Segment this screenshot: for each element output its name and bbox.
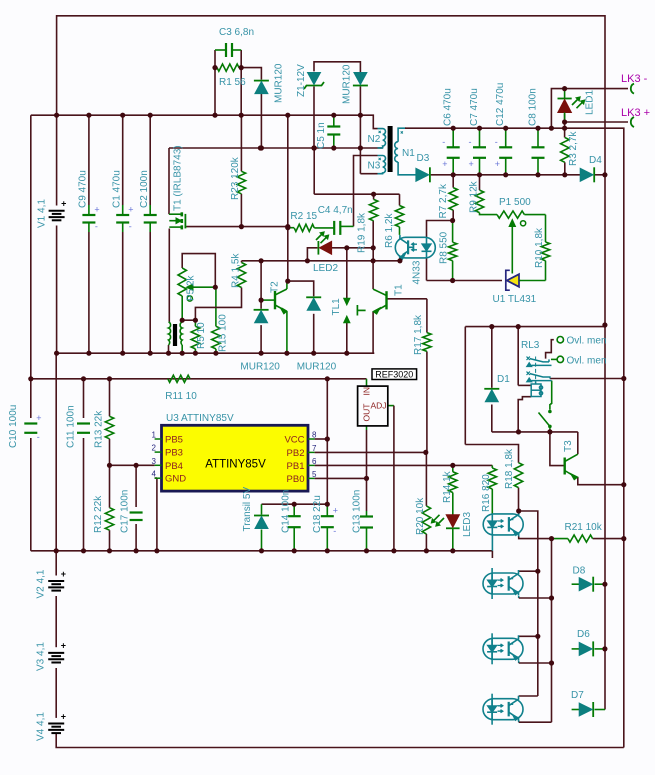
wire R8 leads — [452, 221, 454, 243]
svg-text:C14 100n: C14 100n — [281, 490, 292, 533]
wire opto1 LED cathode to GND rail — [491, 535, 493, 551]
wire D1 column — [491, 327, 493, 388]
wire PB1 pin6 rail — [315, 464, 493, 466]
resistor R1 — [217, 64, 239, 71]
svg-text:V1 4,1: V1 4,1 — [37, 199, 48, 228]
wire C11 column — [83, 379, 85, 418]
battery V3 — [48, 652, 64, 654]
wire R20 column — [425, 452, 427, 506]
wire 4N33 emitter rail — [399, 258, 401, 261]
wire relay left vertical x=465.3 — [464, 327, 466, 445]
wire transil bottom lead — [261, 530, 263, 551]
svg-text:Ovl. men: Ovl. men — [567, 336, 607, 347]
wire C14 leads — [293, 504, 295, 516]
svg-text:LK3 +: LK3 + — [621, 107, 650, 119]
wire MUR120 D5 column — [260, 261, 262, 309]
wire R23 column — [240, 115, 242, 171]
transformer TL1 winding B — [180, 322, 182, 345]
optocoupler OK4 — [483, 694, 523, 725]
wire R13 column — [109, 379, 111, 417]
svg-text:+: + — [36, 413, 41, 423]
resistor R8 — [448, 242, 456, 261]
wire T1 base to R17 — [388, 298, 427, 300]
wire R16 top lead — [491, 465, 493, 468]
diode D6 — [592, 641, 594, 656]
wire relay throw to switch — [551, 381, 553, 404]
wire T2 collector column — [287, 228, 289, 281]
svg-text:R2 15: R2 15 — [290, 211, 317, 222]
wire P1 right lead — [524, 214, 545, 216]
svg-text:C7 470u: C7 470u — [469, 88, 480, 126]
wire D8 leads — [572, 583, 581, 585]
wire relay coil return to rail — [518, 397, 531, 432]
resistor R19 — [369, 199, 377, 220]
relay terminal circles — [557, 337, 563, 343]
zener Z1 — [304, 82, 324, 89]
svg-text:V3 4,1: V3 4,1 — [35, 642, 46, 671]
wire right outer vertical — [604, 89, 606, 325]
wire R19 top — [373, 194, 375, 199]
diode D2a MUR120 — [254, 80, 269, 82]
svg-text:7: 7 — [312, 444, 317, 453]
wire C17 column — [135, 465, 137, 507]
svg-text:MUR120: MUR120 — [274, 63, 285, 103]
wire LED2 cathode link — [307, 248, 317, 261]
svg-text:R15 100: R15 100 — [217, 314, 228, 352]
wire T2 emitter down — [286, 311, 288, 353]
svg-text:-: - — [95, 222, 98, 232]
wire T1 emitter — [372, 312, 374, 354]
wire MUR120 D2b column to N3 — [359, 115, 361, 174]
mosfet T1 IRLB8743 — [181, 212, 184, 216]
svg-text:C12 470u: C12 470u — [495, 83, 506, 126]
diode D7 — [592, 702, 594, 717]
led LED2 — [317, 241, 319, 255]
svg-text:Z1-12V: Z1-12V — [296, 64, 307, 97]
transformer TL1 primary winding A — [169, 322, 171, 345]
svg-text:-: - — [495, 137, 498, 147]
wire 4N33 cathode leg — [426, 258, 428, 281]
wire gate rail y=194.2 — [314, 193, 399, 195]
wire relay coil left terminal — [518, 384, 531, 386]
svg-text:PB2: PB2 — [287, 448, 305, 459]
wire C7 leads — [479, 128, 481, 147]
IC U3 ATTINY85V — [162, 425, 309, 491]
wire D1 bottom rail y=431.9 — [492, 431, 578, 433]
capacitor C6 — [447, 146, 460, 148]
svg-text:4N33: 4N33 — [412, 260, 423, 284]
svg-text:+: + — [61, 199, 66, 209]
wire R16 bottom to opto1 — [491, 489, 493, 515]
wire Z1/MUR120 clamp top link — [314, 62, 360, 72]
capacitor C9 — [88, 205, 90, 215]
svg-text:R20 10k: R20 10k — [415, 497, 426, 535]
wire N3 top feed — [354, 156, 378, 227]
wire R19 bottom — [372, 221, 374, 261]
wire opto4 emitter link — [518, 720, 520, 722]
svg-text:MUR120: MUR120 — [240, 362, 280, 373]
wire opto1 collector branch — [519, 511, 538, 571]
svg-text:N1: N1 — [402, 148, 415, 159]
svg-text:LK3 -: LK3 - — [621, 73, 648, 85]
wire VCC riser x=327.3 — [326, 379, 328, 439]
switch S1 — [548, 410, 552, 414]
svg-text:R17 1,8k: R17 1,8k — [413, 314, 424, 355]
svg-text:2: 2 — [152, 444, 157, 453]
resistor R16 — [488, 468, 496, 489]
wire R1/C3 left column — [214, 68, 216, 116]
relay RL3 coil — [531, 382, 542, 397]
wire T1 collector — [372, 261, 374, 289]
transistor T2 — [274, 291, 276, 309]
svg-text:C8 100n: C8 100n — [527, 88, 538, 126]
wire D6 leads — [572, 648, 581, 650]
transformer N1 winding — [395, 142, 398, 162]
wire MUR120 D7 bottom — [313, 314, 315, 353]
capacitor C3 — [215, 49, 226, 51]
svg-text:5: 5 — [312, 470, 317, 479]
svg-text:PB1: PB1 — [287, 461, 305, 472]
capacitor C10 — [24, 422, 37, 424]
wire R9 bottom to P1 — [480, 213, 498, 215]
wire LED3 bottom lead — [452, 529, 454, 551]
svg-text:C10 100u: C10 100u — [8, 405, 19, 448]
wire LK3- lead — [565, 88, 628, 90]
svg-text:N3: N3 — [368, 161, 381, 172]
transformer N2 winding — [378, 129, 386, 148]
optocoupler OK2 — [483, 568, 523, 599]
phase dot N3 — [379, 158, 381, 160]
svg-text:R8 550: R8 550 — [439, 231, 450, 264]
svg-text:+: + — [61, 569, 66, 579]
battery V1 — [49, 210, 65, 212]
svg-text:3: 3 — [152, 457, 157, 466]
transil D9 5V — [254, 515, 269, 517]
wire C4 right leg — [340, 225, 353, 227]
capacitor C14 — [288, 515, 301, 517]
svg-text:C13 100n: C13 100n — [352, 490, 363, 533]
wire VCC cap rail y=504.2 — [262, 503, 328, 505]
svg-text:C9 470u: C9 470u — [78, 170, 89, 208]
wire LED1 top lead — [564, 89, 566, 98]
wire P5 wiper to R15 node — [188, 286, 215, 288]
wire P1 wiper to TL431 ref — [511, 224, 513, 274]
wire PB2 pin7 rail — [315, 451, 426, 453]
wire R7 column — [452, 175, 454, 188]
optocoupler OK1 — [483, 511, 523, 537]
wire MUR120 D2a top lead — [241, 68, 261, 80]
wire T2 collector node to MUR120 D7 top — [288, 281, 314, 296]
wire C5 bottom lead — [333, 135, 335, 149]
svg-text:Ovl. men: Ovl. men — [567, 355, 607, 366]
svg-text:IN: IN — [362, 387, 372, 396]
wire 4N33 anode leg — [427, 221, 453, 238]
wire C9 column — [88, 115, 90, 205]
wire GND pin4 drop — [155, 477, 157, 479]
svg-text:R10 1,8k: R10 1,8k — [534, 227, 545, 268]
wire PB0 pin5 rail — [315, 477, 367, 479]
resistor R5 — [191, 326, 199, 349]
wire opto3 collector link — [519, 635, 538, 637]
wire relay contact rail y=326.6 — [465, 326, 605, 328]
svg-text:R13 22k: R13 22k — [93, 410, 104, 448]
wire R2-node feed from rail A — [287, 115, 289, 228]
regulator REF3020 — [372, 369, 417, 380]
wire VCC pin8 link — [315, 438, 328, 440]
svg-text:P5 2k: P5 2k — [185, 274, 196, 301]
svg-text:D1: D1 — [497, 374, 510, 385]
svg-text:PB0: PB0 — [287, 474, 305, 485]
optocoupler U2 4N33 — [395, 235, 435, 261]
svg-text:R23 120k: R23 120k — [230, 156, 241, 200]
wire R10 column — [545, 215, 547, 242]
svg-text:C6 470u: C6 470u — [443, 88, 454, 126]
wire N3 bottom link — [360, 173, 377, 175]
wire top border — [57, 16, 605, 115]
battery V4 — [48, 723, 64, 725]
svg-text:MUR120: MUR120 — [342, 64, 353, 104]
capacitor C7 — [473, 146, 486, 148]
capacitor C2 — [149, 205, 151, 215]
svg-text:C1 470u: C1 470u — [111, 170, 122, 208]
wire REF3020 OUT column — [366, 426, 368, 430]
wire D4 out — [595, 174, 606, 176]
resistor R4 — [237, 263, 245, 288]
svg-text:PB5: PB5 — [165, 435, 183, 446]
wire drain column x=169 — [168, 148, 170, 214]
svg-text:Transil 5V: Transil 5V — [242, 487, 253, 532]
led LED1 — [558, 98, 572, 100]
wire TL1 primary left to bus — [168, 345, 170, 353]
resistor R17 — [423, 333, 431, 352]
svg-text:-: - — [333, 526, 336, 536]
wire transil top lead — [261, 504, 263, 514]
wire Z1 bottom lead — [313, 87, 315, 149]
svg-text:R7 2,7k: R7 2,7k — [438, 183, 449, 218]
svg-text:R18 1,8k: R18 1,8k — [504, 448, 515, 489]
wire P5 top link — [182, 254, 215, 288]
wire relay NO contact to LK3+ column — [550, 378, 624, 380]
wire C12 leads — [505, 128, 507, 147]
wire opto2 collector link — [519, 570, 538, 572]
diode D2b MUR120 — [353, 85, 368, 87]
wire opto2 emitter link — [518, 596, 520, 598]
wire GND rail y=550.5 — [31, 550, 493, 552]
wire R15 top lead — [215, 287, 217, 326]
wire T3 base leg — [550, 432, 565, 466]
wire R4 bottom link — [195, 288, 241, 321]
transformer N1 core — [388, 126, 393, 172]
wire LED1 bottom column / R3 — [564, 114, 566, 138]
diode D1 — [484, 388, 499, 390]
resistor R18 — [514, 463, 522, 488]
svg-text:+: + — [333, 506, 338, 516]
diode D8 — [592, 577, 594, 592]
wire R14 column — [452, 465, 454, 471]
wire LED1 left drop — [551, 89, 564, 129]
svg-text:LED3: LED3 — [462, 512, 473, 537]
wire R5 top lead — [194, 320, 196, 326]
svg-text:U1 TL431: U1 TL431 — [493, 294, 537, 305]
wire C8 leads — [537, 128, 539, 147]
connector LK3- — [631, 84, 634, 94]
wire GND rail end stub down — [491, 551, 493, 558]
svg-text:D7: D7 — [571, 690, 584, 701]
svg-text:-: - — [129, 222, 132, 232]
connector LK3+ — [631, 117, 634, 127]
wire LED2 anode feed — [288, 227, 294, 229]
svg-text:U3 ATTINY85V: U3 ATTINY85V — [166, 413, 234, 424]
phase dot N2 — [379, 131, 381, 133]
wire C1 column — [122, 115, 124, 205]
svg-text:C4 4,7n: C4 4,7n — [318, 205, 353, 216]
battery V2 — [48, 580, 64, 582]
svg-text:6: 6 — [312, 457, 317, 466]
svg-text:C3 6,8n: C3 6,8n — [219, 27, 254, 38]
diode D5 MUR120 — [254, 309, 269, 311]
wire TL1 secondary column — [346, 248, 348, 300]
svg-text:R5 10: R5 10 — [196, 322, 207, 349]
wire battery stack column — [55, 353, 57, 575]
diode D7b MUR120 — [306, 296, 321, 298]
svg-text:D3: D3 — [417, 153, 430, 164]
wire C18 leads — [326, 504, 328, 516]
wire REF3020 ADJ leg — [388, 405, 394, 407]
wire PB4 pin3 rail — [110, 464, 155, 466]
wire bottom border — [56, 733, 624, 747]
svg-text:8: 8 — [312, 431, 317, 440]
resistor R3 — [561, 138, 569, 163]
svg-text:R19 1,8k: R19 1,8k — [357, 212, 368, 253]
transformer TL1 core bar — [173, 324, 177, 346]
resistor R15 — [212, 326, 220, 349]
svg-text:R12 22k: R12 22k — [93, 495, 104, 533]
svg-text:R16 820: R16 820 — [481, 474, 492, 512]
potentiometer P1 — [497, 211, 524, 218]
transistor T3 — [564, 458, 566, 475]
svg-text:PB3: PB3 — [165, 448, 183, 459]
resistor R21 — [568, 535, 593, 542]
wire C10 column — [30, 379, 32, 418]
wire opto3 emitter link — [518, 661, 520, 663]
svg-text:C18 22u: C18 22u — [312, 495, 323, 533]
svg-text:1: 1 — [152, 431, 157, 440]
svg-text:+: + — [94, 205, 99, 215]
wire R1/C3 right column — [240, 68, 242, 116]
svg-text:C5 1n: C5 1n — [316, 122, 327, 149]
svg-text:D8: D8 — [573, 566, 586, 577]
capacitor C1 — [122, 205, 124, 215]
svg-text:TL1: TL1 — [331, 298, 342, 316]
svg-text:T1: T1 — [394, 284, 405, 296]
wire N2 top feed — [360, 115, 377, 128]
relay RL3 contact wire to Ovl terminal 1 — [546, 340, 554, 359]
svg-text:+: + — [128, 205, 133, 215]
wire TL1 winding2 bottom — [181, 345, 183, 353]
wire REF3020 IN drop — [366, 379, 368, 381]
wire R21 to LK3+ column — [593, 538, 624, 540]
svg-text:T1 (IRLB8743): T1 (IRLB8743) — [173, 145, 184, 211]
spark gap TL1 secondary — [344, 299, 350, 305]
optocoupler OK3 — [483, 633, 523, 664]
wire cap rail y=128.2 — [405, 127, 565, 129]
svg-text:-: - — [442, 137, 445, 147]
svg-text:T3: T3 — [563, 440, 574, 452]
wire LK3+ lead — [565, 121, 628, 123]
phase dot N1 — [401, 131, 403, 133]
svg-text:R11 10: R11 10 — [165, 391, 197, 402]
capacitor C8 — [532, 146, 545, 148]
wire relay coil drop x=518.2 — [517, 327, 519, 386]
svg-text:-: - — [469, 137, 472, 147]
svg-text:D4: D4 — [589, 155, 602, 166]
resistor R12 — [105, 508, 113, 531]
svg-text:+: + — [469, 159, 474, 169]
resistor R10 — [541, 242, 549, 261]
shunt U1 TL431 — [507, 274, 519, 287]
resistor R7 — [449, 188, 457, 211]
wire R17 column — [426, 299, 428, 333]
wire D7 leads — [572, 709, 581, 711]
wire cap-rail to relay feed — [565, 128, 624, 378]
wire opto chain collector vertical — [537, 571, 539, 636]
resistor R13 — [105, 416, 113, 439]
wire secondary output rail y=174.8 — [431, 174, 581, 176]
relay RL3 link dashed — [535, 357, 537, 384]
wire opto4 collector link — [519, 695, 538, 697]
wire LK3+ vertical lower — [623, 379, 625, 748]
wire C5 top lead — [333, 115, 335, 126]
capacitor C5 — [327, 125, 340, 127]
wire R6 bottom to 4N33 — [399, 227, 401, 235]
svg-text:R14 1k: R14 1k — [442, 470, 453, 503]
TL1 core tick — [356, 305, 358, 316]
svg-text:GND: GND — [165, 474, 186, 485]
svg-text:ADJ: ADJ — [371, 401, 387, 411]
capacitor C18 — [321, 515, 334, 517]
wire rail-B to gate-rail leg x=314 — [313, 148, 315, 194]
wire T3 collector leg — [577, 432, 579, 454]
svg-text:LED2: LED2 — [313, 263, 338, 274]
svg-text:P1 500: P1 500 — [499, 197, 531, 208]
resistor R14 — [449, 472, 457, 493]
svg-text:R9 12k: R9 12k — [469, 180, 480, 213]
wire R15 bottom — [215, 349, 217, 353]
capacitor C13 — [360, 515, 373, 517]
wire R18 feed — [465, 445, 518, 463]
wire T2 base lead — [261, 299, 275, 301]
wire MUR120 D2b bottom lead — [359, 87, 361, 116]
wire rail A main top bus y=115 — [31, 114, 361, 116]
capacitor C17 — [130, 511, 143, 513]
svg-text:LED1: LED1 — [585, 90, 596, 115]
wire node rail y=260.8 — [241, 261, 243, 263]
potentiometer P5 — [178, 268, 186, 296]
svg-text:4: 4 — [152, 470, 157, 479]
wire N1 top to cap rail — [398, 128, 406, 142]
svg-text:+: + — [61, 641, 66, 651]
wire R11/VCC rail y=379 — [31, 378, 367, 380]
diode D3 — [429, 167, 431, 182]
wire C13 leads — [366, 511, 368, 517]
wire opto emitter vertical x=551.5 — [551, 539, 553, 598]
resistor R9 — [475, 190, 483, 213]
wire TL431 cathode rail y=280.5 — [427, 280, 503, 282]
capacitor C11 — [77, 422, 90, 424]
wire MUR120 D2a bottom lead — [260, 94, 262, 148]
svg-text:D6: D6 — [577, 629, 590, 640]
svg-text:R3 2,7k: R3 2,7k — [568, 131, 579, 166]
